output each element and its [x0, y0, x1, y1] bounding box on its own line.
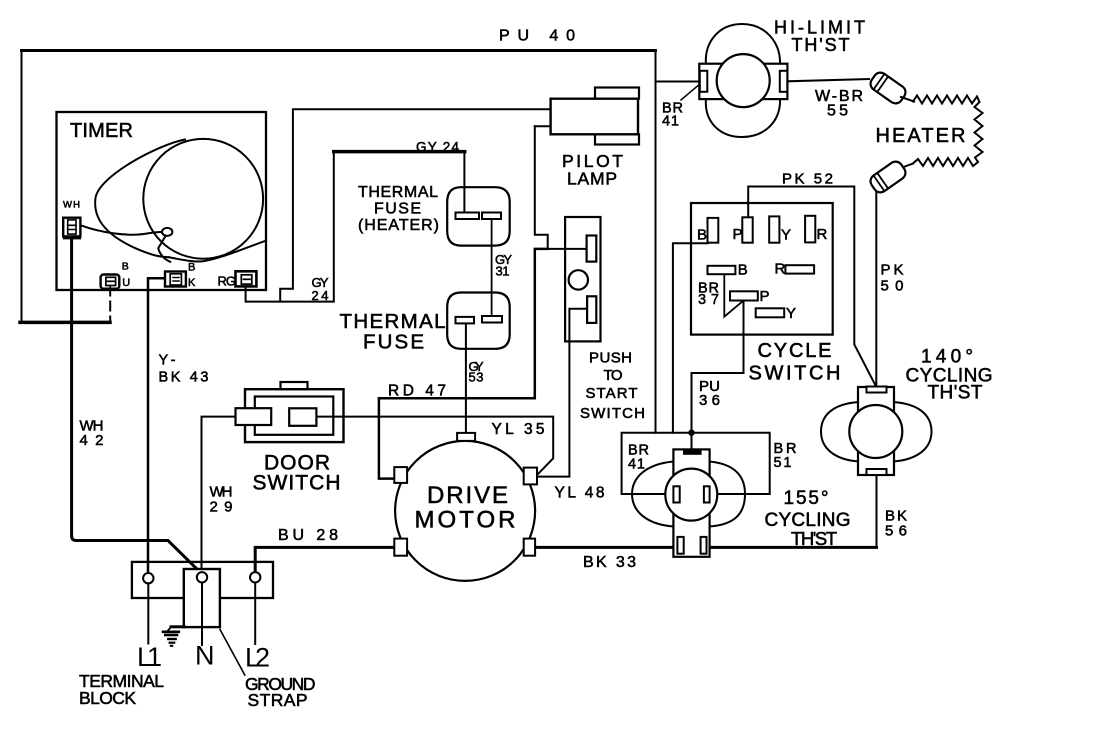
svg-text:B: B [738, 262, 748, 279]
svg-text:DRIVE: DRIVE [427, 482, 508, 509]
hi-limit terminal right [780, 71, 788, 92]
timer loop tail [158, 236, 170, 262]
hi-limit thermostat body [699, 64, 787, 99]
wire PU 36 cycle switch to 155 thermostat [692, 301, 744, 450]
timer box [57, 112, 267, 290]
wire GY24 drop to thermal fuse heater [463, 152, 465, 213]
wire RG terminal to GY24 [246, 152, 334, 302]
door switch terminal right [289, 408, 316, 426]
cycle switch terminal B vertical [708, 218, 719, 243]
svg-text:(HEATER): (HEATER) [358, 217, 439, 234]
wire BR41 pointer [681, 86, 698, 101]
155 thermostat foot right [701, 537, 707, 554]
140 thermostat left ear [821, 402, 859, 462]
pilot lamp bottom tab [595, 134, 639, 144]
wire heater to 140 thermostat [875, 191, 877, 387]
thermal fuse heater terminal left [456, 213, 480, 220]
push switch terminal top [587, 236, 597, 262]
svg-text:START: START [586, 385, 638, 402]
push to start switch body [565, 217, 600, 341]
cycle switch internal wire [724, 274, 743, 317]
wire pilot lamp to timer area [280, 109, 550, 301]
terminal block body [132, 562, 273, 598]
push switch button [569, 270, 588, 289]
cycle switch terminal R vertical [805, 216, 815, 243]
155 thermostat foot left [677, 537, 683, 554]
svg-text:CYCLE: CYCLE [758, 340, 832, 362]
cycle switch terminal P vertical [742, 217, 752, 242]
svg-text:YL 35: YL 35 [492, 421, 545, 438]
155 thermostat terminal top [683, 450, 702, 454]
svg-text:RG: RG [218, 274, 237, 289]
timer connector WH [63, 218, 80, 239]
timer loop [162, 228, 172, 236]
svg-text:TIMER: TIMER [70, 120, 133, 142]
hi-limit thermostat upper ear [706, 24, 780, 65]
wire dashed from BU terminal [109, 287, 111, 323]
140 thermostat right ear [894, 402, 932, 462]
terminal block lead L1 [147, 583, 149, 643]
timer cam tail [169, 241, 266, 262]
wire GY 31 between thermal fuses [491, 219, 493, 317]
heater element zigzag [913, 96, 983, 167]
155 thermostat disc [665, 469, 717, 521]
wire pilot lamp bottom stub [535, 125, 551, 127]
svg-text:TO: TO [604, 367, 623, 384]
hi-limit thermostat lower ear [706, 99, 780, 138]
svg-text:THERMAL: THERMAL [358, 184, 438, 201]
timer connector BU [101, 275, 120, 289]
drive motor body [395, 441, 535, 581]
drive motor terminal right lower [524, 539, 535, 556]
thermal fuse heater body [447, 187, 510, 245]
drive motor terminal left upper [394, 467, 407, 483]
svg-text:B: B [188, 262, 195, 274]
wire BR 41 vertical [655, 51, 657, 433]
wire bold horizontal to timer BU terminal [20, 321, 110, 325]
svg-text:BK 33: BK 33 [583, 554, 636, 571]
wire hi-limit to heater W-BR 55 [788, 79, 870, 81]
heater crimp bottom [868, 159, 908, 195]
door switch inner body [255, 397, 333, 435]
heater crimp bottom lead [901, 164, 913, 169]
node junction dot [688, 430, 694, 436]
wire PU 40 top line [22, 49, 656, 52]
wire cycle switch B terminal down [673, 243, 708, 432]
svg-text:LAMP: LAMP [567, 169, 617, 189]
svg-text:PK 52: PK 52 [782, 171, 833, 188]
svg-text:SWITCH: SWITCH [253, 472, 341, 495]
wire PK 52 [748, 187, 876, 387]
svg-text:STRAP: STRAP [248, 690, 308, 710]
thermal fuse terminal right [482, 316, 502, 323]
wire GY 24 bold horizontal [334, 150, 465, 154]
ground strap pointer [220, 630, 245, 676]
svg-text:Y: Y [781, 227, 791, 244]
terminal L1 [143, 573, 153, 583]
svg-text:B: B [122, 261, 129, 273]
svg-text:41: 41 [662, 114, 679, 130]
155 thermostat terminal inner left [673, 486, 679, 502]
hi-limit thermostat disc [717, 54, 770, 107]
drive motor terminal right upper [524, 468, 537, 485]
wire WH 42 timer to terminal block [72, 239, 203, 574]
terminal L2 [250, 572, 260, 582]
svg-text:R: R [817, 226, 828, 243]
wire pilot lamp down with jog to push switch [535, 126, 587, 249]
140 thermostat terminal top [867, 387, 887, 393]
wire RD 47 pilot to drive motor [379, 249, 548, 479]
heater crimp top [868, 70, 908, 106]
155 thermostat left ear [632, 462, 674, 527]
wire BR box around 155 thermostat [622, 433, 770, 494]
door switch outer body [245, 389, 344, 442]
wire left frame vertical [21, 51, 23, 323]
wire door switch to motor YL35 [302, 417, 553, 474]
svg-text:B: B [697, 227, 707, 244]
pilot lamp body [551, 99, 638, 135]
svg-text:TH'ST: TH'ST [792, 35, 850, 55]
svg-text:BU 28: BU 28 [278, 527, 338, 544]
svg-text:RD 47: RD 47 [388, 383, 446, 400]
155 thermostat terminal inner right [704, 486, 710, 502]
thermal fuse body [447, 293, 510, 349]
svg-text:P: P [733, 226, 743, 243]
svg-text:SWITCH: SWITCH [580, 405, 645, 422]
svg-text:THERMAL: THERMAL [340, 310, 446, 333]
thermal fuse terminal left [456, 317, 475, 324]
wire door switch to WH29 [202, 417, 237, 573]
svg-text:N: N [195, 641, 215, 671]
140 thermostat disc [849, 405, 902, 458]
svg-text:31: 31 [496, 264, 510, 279]
140 thermostat terminal bottom [867, 469, 887, 475]
svg-text:BK 43: BK 43 [159, 370, 209, 386]
svg-text:L2: L2 [245, 643, 270, 673]
door switch top tab [281, 382, 308, 389]
cycle switch terminal Y horizontal [756, 308, 785, 317]
cycle switch terminal P horizontal [730, 291, 758, 300]
door switch terminal left [236, 408, 272, 425]
svg-text:R: R [775, 261, 786, 278]
terminal block N box [184, 569, 220, 627]
svg-text:MOTOR: MOTOR [415, 507, 516, 534]
drive motor terminal top [457, 433, 475, 441]
wire YL 48 push switch to motor [537, 309, 587, 477]
svg-text:HEATER: HEATER [876, 125, 966, 147]
thermal fuse heater terminal right [482, 213, 501, 220]
svg-text:TH'ST: TH'ST [928, 383, 983, 404]
timer cam blob circle [143, 139, 263, 259]
svg-text:L1: L1 [137, 642, 162, 672]
svg-text:Y: Y [786, 305, 796, 322]
ground strap symbol [171, 625, 184, 628]
155 thermostat right ear [710, 462, 746, 527]
svg-text:GY 24: GY 24 [416, 140, 459, 155]
svg-text:41: 41 [628, 457, 645, 473]
svg-text:YL 48: YL 48 [555, 485, 605, 502]
timer connector BK [165, 272, 186, 287]
wire Y-BK 43 timer to L1 [148, 278, 166, 573]
timer connector RG [236, 271, 257, 286]
svg-text:53: 53 [469, 370, 484, 385]
140 thermostat body [858, 387, 894, 475]
svg-text:51: 51 [774, 455, 792, 471]
timer cam teardrop curve [95, 140, 185, 258]
wire GY 53 thermal fuse to motor [465, 324, 467, 434]
cycle switch box [691, 203, 833, 335]
svg-text:TH'ST: TH'ST [791, 528, 837, 549]
wire BK 56 from 140 thermostat [876, 475, 878, 548]
svg-text:BLOCK: BLOCK [79, 688, 136, 708]
cycle switch terminal B horizontal [708, 266, 736, 274]
svg-text:K: K [188, 277, 196, 289]
terminal N [197, 572, 207, 582]
heater crimp top lead [901, 97, 914, 102]
terminal block lead N [201, 583, 203, 646]
wire BU 28 L2 to motor [255, 547, 394, 577]
drive motor terminal left lower [394, 539, 407, 556]
push switch terminal bottom [587, 296, 596, 323]
hi-limit terminal left [700, 71, 708, 92]
wire BK 33 motor to BK56 [535, 546, 876, 549]
cycle switch terminal R horizontal [785, 265, 814, 273]
svg-text:U: U [122, 277, 130, 289]
wire hi-limit left feed [656, 81, 700, 83]
svg-text:P: P [760, 288, 770, 305]
terminal block lead L2 [254, 583, 256, 645]
svg-text:WH: WH [63, 200, 80, 211]
svg-text:PUSH: PUSH [589, 350, 632, 367]
pilot lamp top tab [595, 88, 639, 99]
svg-text:FUSE: FUSE [374, 201, 421, 218]
timer wire WH to loop [80, 225, 162, 235]
155 thermostat body [673, 449, 709, 556]
cycle switch terminal Y vertical [769, 216, 779, 242]
svg-text:155°: 155° [784, 488, 829, 509]
